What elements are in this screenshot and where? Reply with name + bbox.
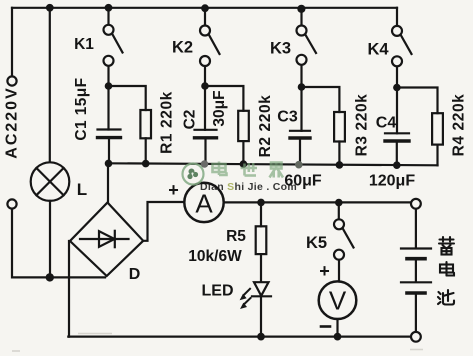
svg-text:K5: K5 xyxy=(306,234,327,252)
svg-text:C1 15μF: C1 15μF xyxy=(73,77,90,140)
svg-text:C2: C2 xyxy=(182,110,199,130)
svg-text:LED: LED xyxy=(202,283,234,300)
svg-text:R1 220k: R1 220k xyxy=(159,91,176,154)
svg-text:+: + xyxy=(168,180,179,200)
svg-text:R2 220k: R2 220k xyxy=(257,95,274,158)
svg-text:C3: C3 xyxy=(277,109,298,126)
svg-text:C4: C4 xyxy=(376,115,397,132)
svg-text:Dian Shi Jie . Com: Dian Shi Jie . Com xyxy=(200,181,297,193)
svg-text:30μF: 30μF xyxy=(211,90,228,126)
svg-text:K1: K1 xyxy=(74,36,94,53)
svg-text:10k/6W: 10k/6W xyxy=(188,248,242,265)
svg-text:A: A xyxy=(195,189,213,219)
svg-text:R3 220k: R3 220k xyxy=(354,94,371,157)
svg-text:AC220V: AC220V xyxy=(4,86,21,158)
svg-text:D: D xyxy=(129,266,141,283)
svg-text:+: + xyxy=(319,261,330,281)
svg-text:K2: K2 xyxy=(172,39,193,57)
svg-text:R5: R5 xyxy=(226,228,246,245)
svg-text:K3: K3 xyxy=(270,40,291,58)
svg-text:120μF: 120μF xyxy=(369,173,415,190)
svg-text:L: L xyxy=(77,180,87,199)
svg-text:R4 220k: R4 220k xyxy=(451,94,468,157)
svg-text:V: V xyxy=(329,286,347,316)
svg-text:K4: K4 xyxy=(367,41,389,59)
